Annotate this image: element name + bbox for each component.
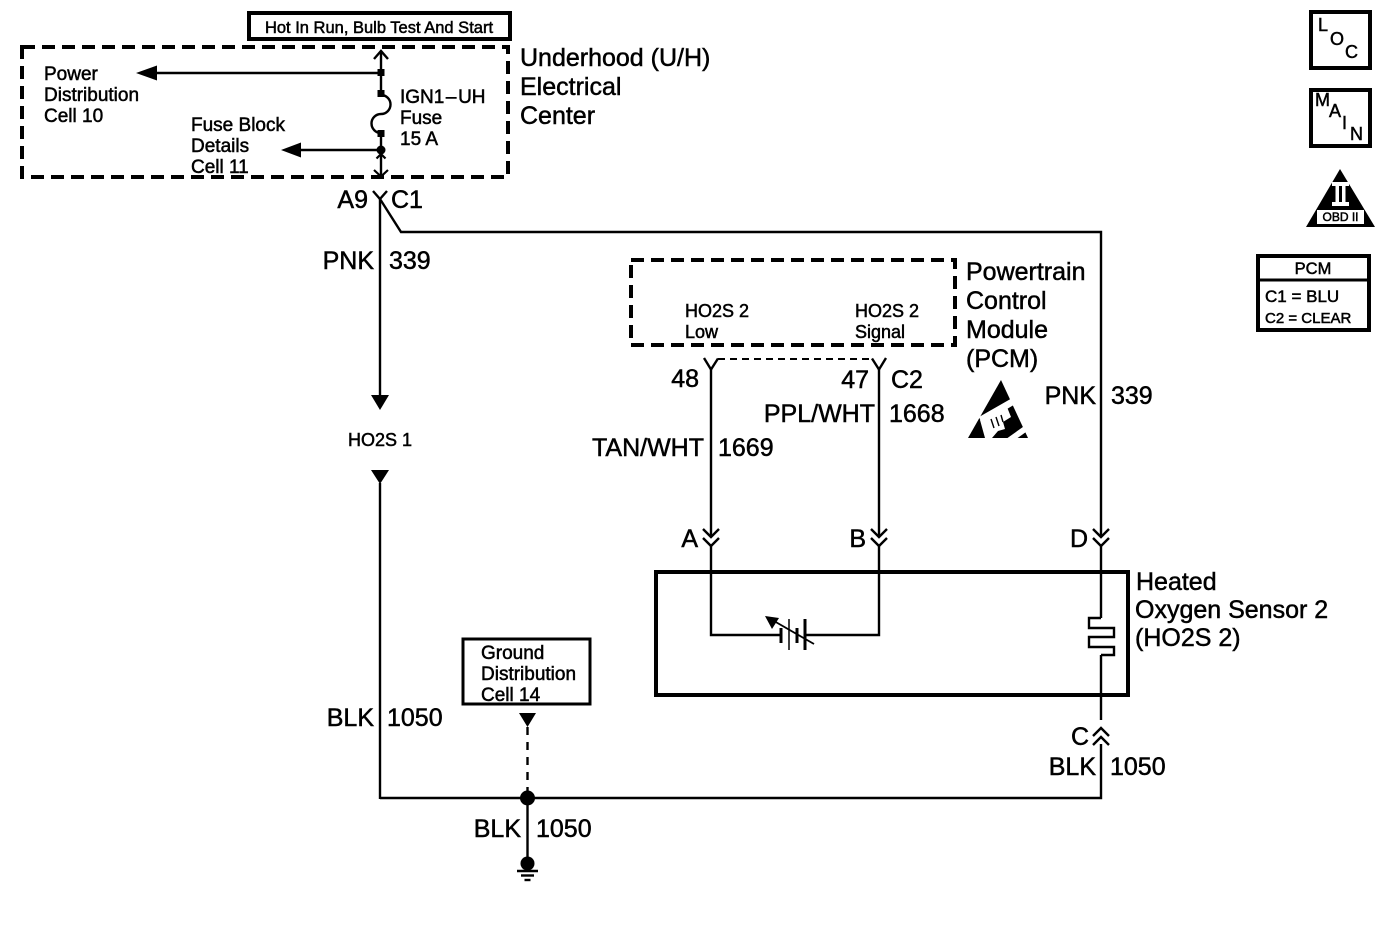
label: HO2S 2 Low <box>685 301 749 342</box>
HO2S 2 enclosure <box>656 572 1128 695</box>
PCM connector legend <box>1258 256 1369 330</box>
wire: pin D heater feed <box>1100 546 1102 618</box>
svg-text:Fuse Block: Fuse Block <box>191 115 285 136</box>
svg-text:BLK: BLK <box>1049 753 1097 781</box>
svg-text:Center: Center <box>520 102 595 130</box>
svg-text:1050: 1050 <box>387 704 443 732</box>
svg-text:Low: Low <box>685 322 719 342</box>
svg-text:1669: 1669 <box>718 434 774 462</box>
label: IGN1 - UH Fuse 15 A <box>400 87 486 150</box>
wire: arrow to Power Distribution Cell 10 <box>136 66 381 81</box>
label: Underhood (U/H) Electrical Center <box>520 44 710 130</box>
svg-text:Details: Details <box>191 136 249 157</box>
node: ground splice junction <box>520 791 535 806</box>
svg-text:47: 47 <box>841 366 869 394</box>
svg-text:D: D <box>1070 525 1088 553</box>
wire: BLK from HO2S 1 splice (resumes) <box>371 470 389 799</box>
label: Heated Oxygen Sensor 2 (HO2S 2) <box>1135 568 1328 652</box>
svg-text:A: A <box>1329 101 1341 121</box>
label: Power Distribution Cell 10 <box>44 64 139 127</box>
svg-text:Signal: Signal <box>855 322 905 342</box>
svg-text:C2 = CLEAR: C2 = CLEAR <box>1265 310 1351 327</box>
label: PNK 339 (right) <box>1045 382 1153 410</box>
label: PPL/WHT 1668 <box>764 400 945 428</box>
sensor element (variable voltage cell) <box>765 616 814 650</box>
svg-text:HO2S 2: HO2S 2 <box>685 301 749 321</box>
svg-text:PNK: PNK <box>1045 382 1097 410</box>
Underhood (U/H) Electrical Center enclosure (dashed) <box>22 47 508 177</box>
svg-text:(HO2S 2): (HO2S 2) <box>1135 624 1241 652</box>
fuse IGN1-UH 15 A <box>372 95 391 133</box>
wire: pin A lead into sensor element <box>711 546 780 635</box>
wire: fuse output lead <box>380 137 382 175</box>
svg-text:C: C <box>1071 723 1089 751</box>
svg-text:Control: Control <box>966 287 1047 315</box>
svg-text:Oxygen Sensor 2: Oxygen Sensor 2 <box>1135 596 1328 624</box>
OBD II symbol <box>1306 169 1375 227</box>
svg-text:48: 48 <box>671 365 699 393</box>
svg-text:Powertrain: Powertrain <box>966 258 1086 286</box>
svg-text:PCM: PCM <box>1295 260 1332 278</box>
node: fuse output junction dot <box>377 146 386 155</box>
label: BLK 1050 (left leg) <box>327 704 443 732</box>
svg-text:1050: 1050 <box>1110 753 1166 781</box>
svg-text:Cell 10: Cell 10 <box>44 106 103 127</box>
svg-text:O: O <box>1330 29 1344 49</box>
connector pin D <box>1070 525 1109 553</box>
svg-text:HO2S 1: HO2S 1 <box>348 430 412 450</box>
svg-text:TAN/WHT: TAN/WHT <box>592 434 704 462</box>
svg-text:Distribution: Distribution <box>44 85 139 106</box>
svg-text:15 A: 15 A <box>400 129 438 150</box>
wire: pin B lead into sensor element <box>806 546 879 635</box>
wire: PNK 339 vertical to HO2S 1 <box>371 199 389 410</box>
label: Powertrain Control Module (PCM) <box>966 258 1086 373</box>
connector C1 pin A9 <box>337 186 423 214</box>
svg-text:C2: C2 <box>891 366 923 394</box>
connector C2 pin 47 <box>841 358 923 394</box>
label: BLK 1050 (ground lead) <box>474 815 592 843</box>
node: fuse top terminal (square) <box>378 90 385 97</box>
node: feed branch terminal (square) <box>378 69 385 76</box>
ground symbol <box>517 857 538 881</box>
svg-text:Heated: Heated <box>1136 568 1217 596</box>
svg-text:L: L <box>1318 15 1328 35</box>
wire: arrow to Fuse Block Details Cell 11 <box>281 143 381 158</box>
svg-text:C: C <box>1345 42 1358 62</box>
svg-text:IGN1 – UH: IGN1 – UH <box>400 87 486 108</box>
label: TAN/WHT 1669 <box>592 434 774 462</box>
ESD sensitivity symbol <box>968 380 1033 449</box>
svg-text:1668: 1668 <box>889 400 945 428</box>
svg-text:M: M <box>1315 90 1330 110</box>
svg-text:Cell 11: Cell 11 <box>191 157 249 178</box>
wire: TAN/WHT 1669 <box>710 369 712 536</box>
svg-text:OBD II: OBD II <box>1322 210 1358 224</box>
svg-text:Power: Power <box>44 64 99 85</box>
svg-text:BLK: BLK <box>474 815 522 843</box>
svg-text:Cell 14: Cell 14 <box>481 685 541 706</box>
PCM enclosure (dashed) <box>631 260 955 345</box>
svg-text:A9: A9 <box>337 186 368 214</box>
node: fuse bottom terminal (square) <box>378 130 385 137</box>
svg-text:Distribution: Distribution <box>481 664 576 685</box>
label box: Hot In Run, Bulb Test And Start <box>249 13 510 39</box>
wire: battery feed into fuse (arrow up at enclosure top) <box>374 51 388 92</box>
svg-text:PNK: PNK <box>323 247 375 275</box>
svg-text:BLK: BLK <box>327 704 375 732</box>
label: Fuse Block Details Cell 11 <box>191 115 285 178</box>
svg-text:B: B <box>849 525 866 553</box>
Ground Distribution Cell 14 box <box>463 639 590 706</box>
svg-text:Hot In Run, Bulb Test And Star: Hot In Run, Bulb Test And Start <box>265 19 493 37</box>
wire: heater return to pin C <box>1100 655 1102 720</box>
connector C2 boundary (dashed) <box>718 358 873 360</box>
svg-text:339: 339 <box>1111 382 1153 410</box>
svg-text:339: 339 <box>389 247 431 275</box>
svg-text:C1: C1 <box>391 186 423 214</box>
wire: BLK 1050 bottom run <box>380 744 1101 798</box>
connector C2 pin 48 <box>671 358 718 393</box>
label: HO2S 2 Signal <box>855 301 919 342</box>
svg-text:Underhood (U/H): Underhood (U/H) <box>520 44 710 72</box>
wire: PPL/WHT 1668 <box>878 369 880 536</box>
svg-text:1050: 1050 <box>536 815 592 843</box>
LOC reference symbol <box>1311 12 1370 68</box>
connector pin C <box>1071 723 1109 751</box>
connector pin A <box>681 525 719 553</box>
svg-text:A: A <box>681 525 698 553</box>
heater element <box>1089 618 1114 655</box>
connector pin B <box>849 525 887 553</box>
svg-text:N: N <box>1350 124 1363 144</box>
wire: ground lead <box>526 798 528 858</box>
svg-text:Ground: Ground <box>481 643 544 664</box>
svg-text:C1 = BLU: C1 = BLU <box>1265 287 1339 306</box>
connector: enclosure exit chevrons <box>374 154 388 177</box>
MAIN reference symbol <box>1311 90 1370 146</box>
svg-text:Fuse: Fuse <box>400 108 442 129</box>
label: PNK 339 (left) <box>323 247 431 275</box>
label: BLK 1050 (sensor return) <box>1049 753 1166 781</box>
wire: PNK 339 branch to PCM (diagonal, top run, right drop) <box>380 199 1101 536</box>
svg-text:I: I <box>1342 113 1347 133</box>
svg-text:HO2S 2: HO2S 2 <box>855 301 919 321</box>
svg-text:(PCM): (PCM) <box>966 345 1038 373</box>
svg-text:PPL/WHT: PPL/WHT <box>764 400 875 428</box>
svg-text:Module: Module <box>966 316 1048 344</box>
svg-text:Electrical: Electrical <box>520 73 621 101</box>
wire: dashed lead to ground distribution <box>519 713 536 798</box>
